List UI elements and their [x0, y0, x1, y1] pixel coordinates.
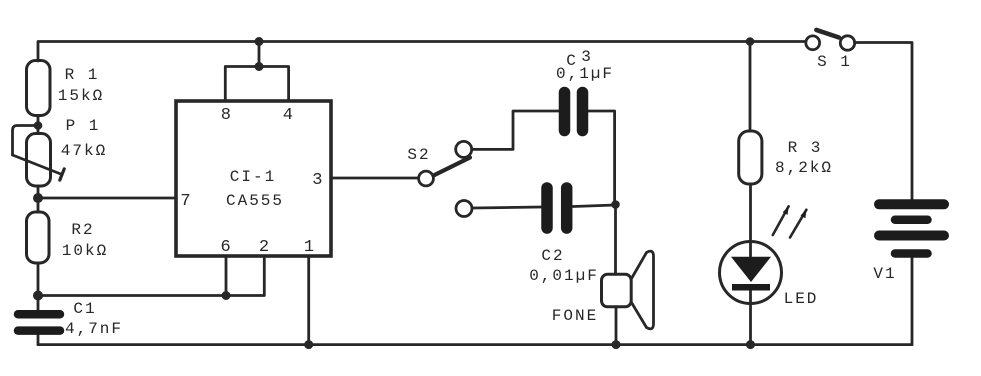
svg-text:1: 1 [304, 238, 314, 257]
svg-text:47kΩ: 47kΩ [61, 142, 107, 160]
svg-text:7: 7 [180, 192, 190, 211]
svg-text:4,7nF: 4,7nF [65, 320, 123, 338]
svg-text:V1: V1 [873, 265, 896, 283]
svg-text:10kΩ: 10kΩ [62, 242, 108, 260]
svg-text:CA555: CA555 [226, 192, 284, 210]
svg-text:8,2kΩ: 8,2kΩ [775, 159, 833, 177]
svg-text:8: 8 [221, 106, 231, 125]
svg-text:S 1: S 1 [817, 53, 852, 71]
svg-text:15kΩ: 15kΩ [58, 87, 104, 105]
svg-text:R2: R2 [71, 221, 94, 239]
svg-text:P 1: P 1 [66, 117, 101, 135]
svg-text:4: 4 [283, 106, 293, 125]
svg-text:S2: S2 [407, 146, 430, 164]
svg-text:C1: C1 [73, 300, 96, 318]
svg-text:R 1: R 1 [65, 66, 100, 84]
svg-text:0,1µF: 0,1µF [556, 65, 614, 83]
svg-text:FONE: FONE [552, 307, 598, 325]
svg-text:0,01µF: 0,01µF [529, 267, 599, 285]
svg-text:6: 6 [220, 238, 230, 257]
svg-text:LED: LED [784, 290, 819, 308]
svg-text:R 3: R 3 [788, 139, 823, 157]
svg-text:C2: C2 [541, 247, 564, 265]
svg-text:3: 3 [581, 48, 593, 66]
svg-text:2: 2 [259, 238, 269, 257]
svg-text:3: 3 [312, 171, 322, 190]
svg-text:CI-1: CI-1 [230, 168, 276, 186]
